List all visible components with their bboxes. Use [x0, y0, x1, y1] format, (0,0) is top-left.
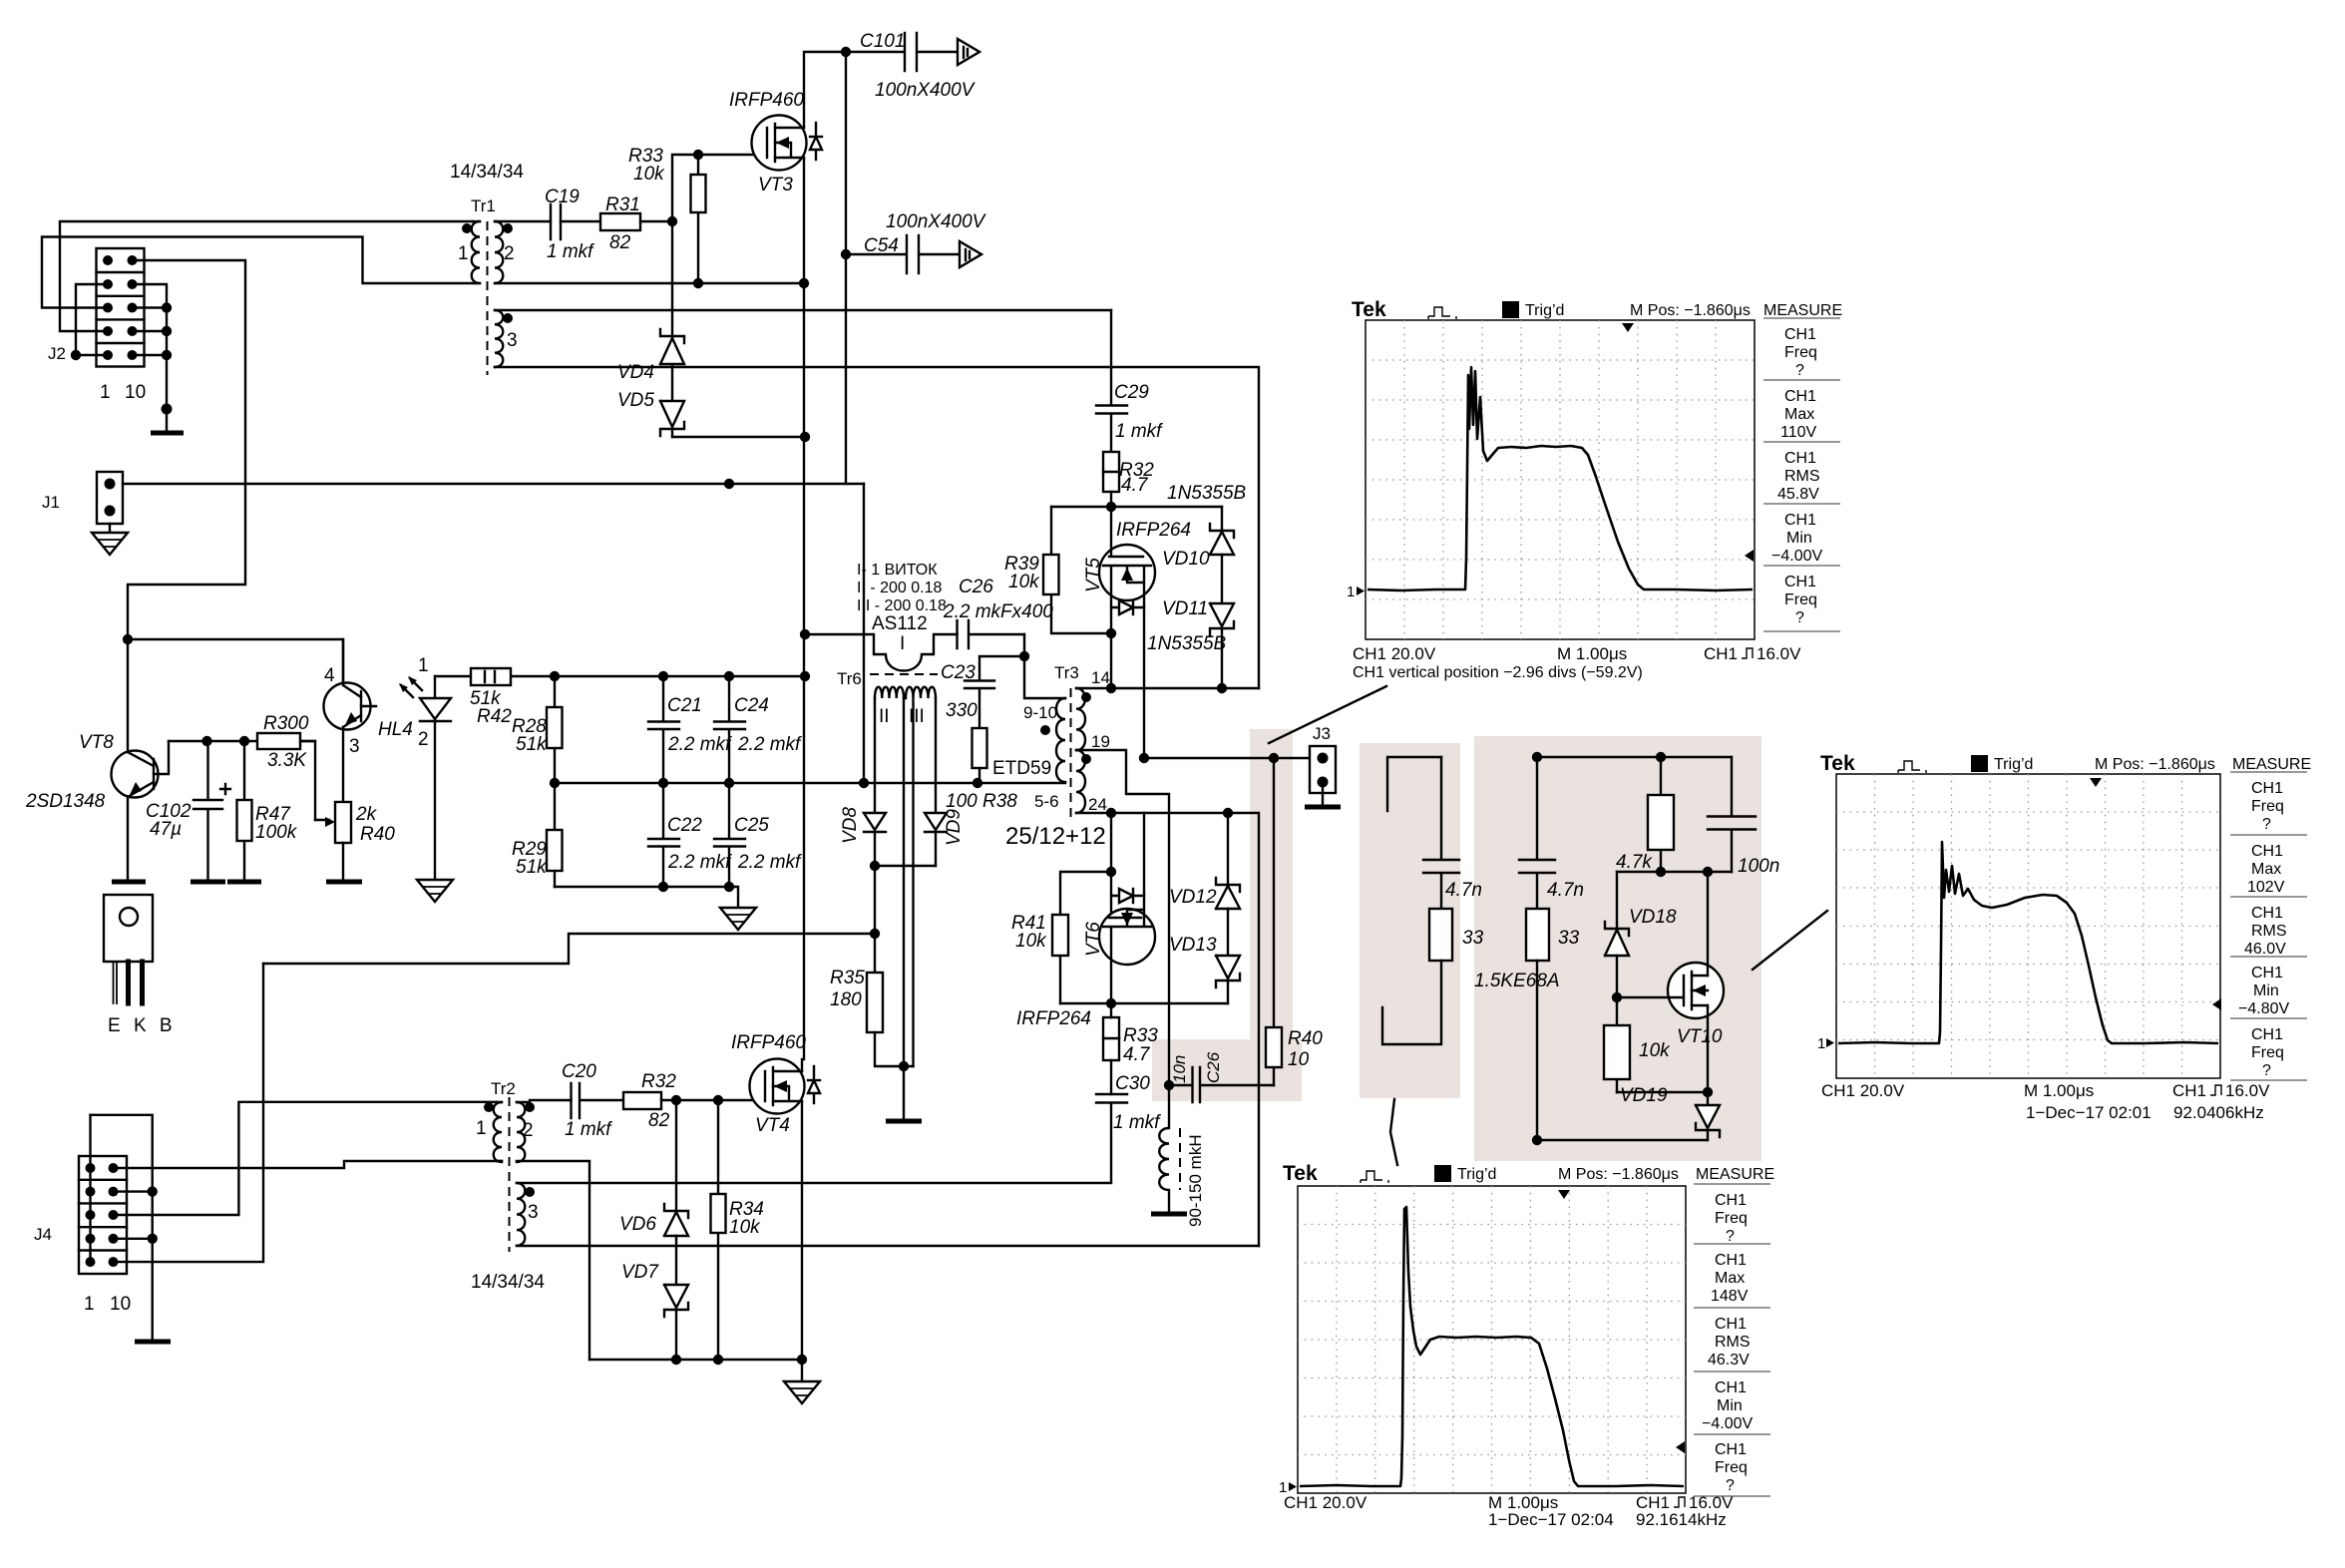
- svg-text:J1: J1: [42, 493, 60, 512]
- svg-text:I- 1 ВИТОК: I- 1 ВИТОК: [857, 562, 938, 579]
- svg-text:3: 3: [528, 1202, 539, 1223]
- wire: J4 row3 to Tr2 winding1 top: [114, 1102, 498, 1215]
- scope2 pulse icon: [1898, 761, 1926, 773]
- wire: J4 top loop to ground riser: [91, 1115, 153, 1340]
- svg-text:VD6: VD6: [619, 1214, 656, 1235]
- wire: HL4 anode rail to half-bridge node: [435, 675, 805, 677]
- scope1 menu separators: [1763, 318, 1840, 631]
- svg-text:I: I: [900, 633, 905, 654]
- junction at (128,641): [123, 634, 133, 644]
- svg-text:CH1: CH1: [2251, 905, 2283, 922]
- svg-text:VD11: VD11: [1162, 598, 1208, 619]
- svg-text:Freq: Freq: [2251, 798, 2284, 815]
- capacitor C30 1mkf: [1096, 1094, 1127, 1182]
- svg-text:CH1: CH1: [1784, 512, 1816, 529]
- junction at (1114,815): [1106, 808, 1116, 818]
- svg-text:Trig’d: Trig’d: [1525, 302, 1564, 319]
- svg-text:M Pos: −1.860μs: M Pos: −1.860μs: [1558, 1166, 1679, 1183]
- svg-text:4.7n: 4.7n: [1445, 880, 1482, 901]
- wire: VT4 drain to half-bridge node: [801, 1059, 803, 1071]
- svg-text:CH1: CH1: [1784, 326, 1816, 343]
- svg-text:19: 19: [1091, 732, 1110, 751]
- svg-text:VD13: VD13: [1169, 935, 1217, 956]
- svg-text:Freq: Freq: [1715, 1459, 1748, 1476]
- junction at (1027,658): [1019, 651, 1029, 661]
- svg-text:CH1: CH1: [1784, 450, 1816, 467]
- wire: J2 row2 left pin loop to row5 left pin: [76, 284, 108, 355]
- svg-text:C29: C29: [1114, 382, 1149, 403]
- svg-text:Tek: Tek: [1283, 1162, 1318, 1185]
- svg-text:CH1 20.0V: CH1 20.0V: [1353, 644, 1436, 663]
- svg-text:C26: C26: [1204, 1051, 1223, 1083]
- svg-text:16.0V: 16.0V: [2225, 1081, 2270, 1100]
- scope3 gridlines: [1298, 1186, 1686, 1493]
- ground bar (J4): [135, 1340, 171, 1345]
- svg-text:C25: C25: [734, 815, 769, 836]
- svg-text:CH1 20.0V: CH1 20.0V: [1821, 1081, 1905, 1100]
- VT6 body diode glyph: [1111, 889, 1144, 903]
- wire: Tr6 primary single turn: [805, 634, 958, 671]
- junction at (674,222): [667, 216, 677, 226]
- ground bar (R47): [227, 880, 261, 885]
- capacitor C26 2.2mkFx400: [958, 620, 1025, 648]
- svg-text:IRFP264: IRFP264: [1016, 1008, 1091, 1029]
- svg-text:100nX400V: 100nX400V: [875, 80, 977, 101]
- svg-text:92.0406kHz: 92.0406kHz: [2173, 1103, 2264, 1122]
- svg-text:C54: C54: [864, 235, 899, 256]
- svg-text:51k: 51k: [516, 734, 548, 755]
- scope1 gridlines: [1366, 320, 1755, 639]
- connector J1 pins: [105, 479, 116, 517]
- Tr6 winding II: [875, 687, 904, 698]
- junction at (1712,874): [1703, 867, 1713, 877]
- transistor VT8 2SD1348: [112, 639, 170, 882]
- shaded highlight region A2 (C26 10n patch): [1152, 1039, 1302, 1101]
- svg-text:82: 82: [648, 1110, 670, 1131]
- wire: Tr2 winding3 top line to C30: [517, 1182, 1111, 1184]
- svg-text:CH1: CH1: [1715, 1316, 1747, 1333]
- junction at (245,743): [239, 736, 249, 746]
- wire: J4 row1 to Tr2 winding1 bottom: [114, 1161, 498, 1168]
- svg-text:Freq: Freq: [1715, 1210, 1748, 1227]
- resistor R47: [243, 741, 245, 880]
- pointer line region B to scope3: [1390, 1099, 1397, 1165]
- resistor R34 10k: [717, 1100, 719, 1360]
- wire: anode node down to R35: [874, 866, 876, 973]
- resistor R40 10 (output damper): [1273, 758, 1275, 1085]
- wire: C26 to Tr3 primary top: [1024, 634, 1065, 698]
- wire: VD8/VD9 anodes join: [875, 865, 936, 867]
- junction at (152.7,1241.8): [148, 1234, 158, 1244]
- wire: J1 line drop to mid rail: [863, 484, 865, 783]
- svg-text:4.7k: 4.7k: [1616, 852, 1653, 873]
- wire: J4 left pins chain: [89, 1115, 91, 1262]
- svg-text:24: 24: [1088, 795, 1107, 814]
- svg-text:RMS: RMS: [1715, 1334, 1751, 1351]
- diode VD9: [925, 813, 947, 866]
- svg-text:16.0V: 16.0V: [1757, 644, 1801, 663]
- junction at (700,155): [693, 150, 703, 160]
- wire: region C top rail: [1537, 756, 1732, 758]
- svg-text:Tr2: Tr2: [491, 1079, 516, 1098]
- wire: Tr1 winding1 bottom return to J2 row3: [42, 237, 476, 308]
- wire: Tr2 winding2 top to C20: [517, 1100, 572, 1102]
- connector J2 pins: [103, 255, 138, 360]
- wire: region C bottom rail: [1537, 1139, 1708, 1141]
- svg-text:1: 1: [1347, 584, 1355, 600]
- junction at (207.5,743): [201, 736, 211, 746]
- zener VD5 (gate clamp down): [660, 401, 684, 437]
- Tr2 core: [509, 1097, 511, 1252]
- junction C54 node (848,255): [841, 249, 851, 259]
- scope1 grid frame: [1366, 320, 1755, 639]
- svg-text:5-6: 5-6: [1034, 792, 1059, 811]
- svg-text:1 mkf: 1 mkf: [1113, 1112, 1161, 1133]
- svg-text:CH1 vertical position −2.96 di: CH1 vertical position −2.96 divs (−59.2V…: [1353, 664, 1643, 681]
- svg-text:R35: R35: [830, 968, 865, 988]
- svg-text:R40: R40: [360, 824, 395, 845]
- svg-text:VT8: VT8: [79, 732, 114, 753]
- wire: Tr1 winding1 top to J2 row4: [60, 221, 473, 331]
- svg-text:1 mkf: 1 mkf: [565, 1119, 612, 1140]
- junction VT10 gate node (1621,1000): [1612, 992, 1622, 1002]
- Tr3 secondary winding 14-19: [1076, 688, 1085, 750]
- svg-text:MEASURE: MEASURE: [2232, 756, 2311, 773]
- connector J4 body: [79, 1156, 127, 1274]
- wire: divider mid rail to Tr3 primary: [555, 782, 1065, 784]
- svg-text:MEASURE: MEASURE: [1763, 302, 1842, 319]
- svg-text:IRFP460: IRFP460: [731, 1032, 806, 1053]
- wire: R35 bottom to ground node: [875, 1032, 914, 1066]
- svg-text:R40: R40: [1288, 1028, 1323, 1049]
- Tr3 secondary start dot (19): [1081, 754, 1091, 764]
- svg-text:?: ?: [1795, 362, 1804, 379]
- wire: VT3 drain up to C101 node: [804, 52, 846, 128]
- ground (hatched triangle) divider: [720, 908, 756, 930]
- svg-text:2.2 mkf: 2.2 mkf: [667, 734, 732, 755]
- svg-text:1: 1: [476, 1118, 487, 1139]
- svg-text:CH1 20.0V: CH1 20.0V: [1284, 1493, 1368, 1512]
- potentiometer R40 2k: [315, 802, 351, 880]
- svg-text:9-10: 9-10: [1023, 703, 1057, 722]
- svg-text:R300: R300: [263, 713, 309, 734]
- junction at (804,1363): [797, 1355, 807, 1365]
- ground bar (VT8 emitter): [112, 880, 146, 885]
- svg-text:47µ: 47µ: [150, 819, 182, 840]
- svg-text:?: ?: [1726, 1477, 1735, 1494]
- svg-text:1: 1: [100, 382, 111, 403]
- scope2 waveform: [1838, 842, 2218, 1043]
- svg-text:10n: 10n: [1170, 1055, 1189, 1083]
- svg-text:?: ?: [2262, 816, 2271, 833]
- VT3 gate bar: [766, 128, 768, 158]
- wire: R32 to VT5 gate node: [1110, 492, 1112, 507]
- Tr2 winding 2: [517, 1102, 525, 1162]
- Tr2 polarity dot winding1: [484, 1102, 494, 1112]
- svg-text:VT10: VT10: [1677, 1026, 1723, 1047]
- resistor R38 100: [973, 728, 987, 768]
- svg-text:R31: R31: [605, 195, 640, 215]
- scope1 pulse icon: [1428, 307, 1456, 319]
- svg-text:3: 3: [349, 736, 360, 757]
- svg-text:J2: J2: [48, 344, 66, 363]
- ground bar of J2 bus: [151, 431, 184, 436]
- Tr1 polarity dot winding2: [503, 223, 513, 233]
- svg-text:C22: C22: [667, 815, 702, 836]
- Tr2 polarity dot winding3: [525, 1187, 535, 1197]
- Tr2 polarity dot winding2: [525, 1102, 535, 1112]
- wire: VT10 source rail: [1617, 1091, 1708, 1093]
- junction at (152.7,1194.6): [148, 1186, 158, 1196]
- resistor R29 51k: [554, 783, 556, 887]
- svg-text:Tr1: Tr1: [471, 196, 496, 215]
- svg-text:2: 2: [418, 729, 429, 750]
- svg-text:C20: C20: [562, 1061, 596, 1082]
- zener VD6: [664, 1100, 688, 1285]
- svg-text:C26: C26: [959, 577, 993, 597]
- svg-text:1 mkf: 1 mkf: [1115, 421, 1163, 442]
- svg-text:Max: Max: [1715, 1270, 1745, 1287]
- wire: Tr1 winding3 bottom to VD10/14 rail: [495, 367, 1259, 688]
- VT3 channel bar: [774, 124, 776, 162]
- svg-text:C30: C30: [1115, 1073, 1150, 1094]
- svg-text:−4.00V: −4.00V: [1771, 548, 1822, 565]
- svg-text:10k: 10k: [1639, 1040, 1671, 1061]
- wire: Tr1 winding2 top to C19: [495, 220, 551, 222]
- svg-text:4.7: 4.7: [1121, 475, 1149, 496]
- svg-text:VD10: VD10: [1162, 549, 1210, 570]
- wire: winding II left to VD8: [874, 698, 876, 813]
- Tr2 winding 1: [494, 1102, 502, 1162]
- wire: J4 row5 to feedback riser x=264: [114, 964, 264, 1262]
- svg-text:1 mkf: 1 mkf: [547, 241, 594, 262]
- scope3 trigger level arrow: [1676, 1441, 1685, 1453]
- wire: VT8 base rail: [169, 740, 315, 742]
- wire: J2 row1 right pin to VT8 collector bus: [128, 260, 245, 639]
- scope3 waveform: [1300, 1207, 1684, 1486]
- connector J2 row dividers: [97, 272, 145, 343]
- wire: center-tap output to J3: [1144, 757, 1310, 759]
- wire: R300 to pot wiper: [300, 741, 315, 820]
- svg-text:90-150 mkH: 90-150 mkH: [1186, 1134, 1205, 1227]
- svg-text:2.2 mkFx400: 2.2 mkFx400: [943, 601, 1053, 622]
- wire: gate rail of VT10: [1617, 871, 1732, 873]
- junction at (1541,1143): [1532, 1135, 1542, 1145]
- svg-text:CH1: CH1: [2251, 1026, 2283, 1043]
- svg-text:10: 10: [1288, 1049, 1310, 1070]
- svg-text:2: 2: [523, 1120, 534, 1141]
- Tr6 winding III: [906, 687, 936, 698]
- svg-text:10: 10: [125, 382, 146, 403]
- MOSFET VT3 IRFP460: [752, 116, 807, 171]
- svg-text:10k: 10k: [1008, 572, 1040, 592]
- svg-text:HL4: HL4: [378, 719, 413, 740]
- scope2 menu separators: [2230, 772, 2307, 1080]
- svg-text:1N5355B: 1N5355B: [1167, 483, 1247, 504]
- capacitor C19: [551, 204, 561, 239]
- junction at (1712,1095): [1703, 1087, 1713, 1097]
- svg-text:1: 1: [1817, 1035, 1825, 1052]
- svg-text:MEASURE: MEASURE: [1696, 1166, 1774, 1183]
- svg-text:T: T: [1438, 1167, 1446, 1182]
- junction at (1231,815): [1223, 808, 1233, 818]
- junction at (806,284): [799, 278, 809, 288]
- junction VT5 gate node (1114,508): [1106, 502, 1116, 512]
- resistor R39 10k: [1051, 507, 1111, 633]
- svg-text:Freq: Freq: [2251, 1044, 2284, 1061]
- svg-text:102V: 102V: [2247, 879, 2285, 896]
- svg-text:−4.80V: −4.80V: [2238, 1000, 2289, 1017]
- junctions bottom rail: [658, 882, 734, 892]
- ground (hatched triangle) under J1: [92, 533, 128, 555]
- svg-text:110V: 110V: [1780, 424, 1817, 441]
- wire: VT6 source rail: [1060, 1002, 1228, 1004]
- zener VD10: [1210, 507, 1234, 603]
- svg-text:33: 33: [1462, 928, 1484, 949]
- svg-text:25/12+12: 25/12+12: [1005, 823, 1106, 850]
- connector J4 row dividers: [79, 1180, 127, 1251]
- junction at (731,485): [724, 479, 734, 489]
- svg-text:CH1: CH1: [1704, 644, 1738, 663]
- resistor R33 (gate-source VT3): [697, 155, 699, 283]
- svg-text:?: ?: [2262, 1062, 2271, 1079]
- junction at (700,284): [693, 278, 703, 288]
- wire: Tr3 pin24 rail: [1076, 813, 1259, 1246]
- VT3 arrow: [776, 137, 789, 149]
- wire: J4 row4 right stub: [114, 1238, 153, 1240]
- svg-text:Trig’d: Trig’d: [1457, 1166, 1496, 1183]
- svg-text:Min: Min: [1786, 530, 1812, 547]
- svg-text:148V: 148V: [1711, 1288, 1749, 1305]
- wire: Tr2 winding2 bottom return: [497, 1161, 589, 1360]
- junction C101 node (848,52): [841, 47, 851, 57]
- svg-text:Tek: Tek: [1820, 752, 1855, 775]
- wire: R32 to VT4 gate: [661, 1099, 765, 1101]
- svg-text:VD7: VD7: [621, 1262, 659, 1283]
- svg-text:2.2 mkf: 2.2 mkf: [737, 734, 802, 755]
- wire: winding III right to VD9: [935, 698, 937, 813]
- svg-text:1−Dec−17 02:01: 1−Dec−17 02:01: [2026, 1103, 2151, 1122]
- svg-text:II - 200 0.18: II - 200 0.18: [857, 580, 942, 596]
- svg-text:2SD1348: 2SD1348: [25, 791, 106, 812]
- scope2 gridlines: [1836, 774, 2220, 1078]
- VT4 body diode glyph: [808, 1066, 820, 1103]
- Tr2 winding 3: [517, 1183, 525, 1246]
- scope1 trigger level arrow: [1745, 550, 1754, 562]
- svg-text:C101: C101: [860, 31, 905, 52]
- svg-text:IRFP264: IRFP264: [1116, 520, 1191, 541]
- svg-text:2k: 2k: [355, 804, 378, 825]
- VT3 source stub + body tie: [775, 143, 804, 158]
- capacitor C26 10n: [1169, 1067, 1274, 1102]
- scope3 menu separators: [1694, 1184, 1770, 1496]
- wire: divider bottom rail: [555, 887, 738, 908]
- svg-text:330: 330: [946, 700, 977, 721]
- wire: ground stub below VT4 source: [801, 1360, 803, 1381]
- svg-text:100n: 100n: [1738, 856, 1779, 877]
- Tr2 winding 1 leads: [497, 1102, 502, 1161]
- ground bar (Tr6 center): [886, 1119, 922, 1124]
- svg-text:10k: 10k: [633, 164, 665, 185]
- svg-text:Trig’d: Trig’d: [1994, 756, 2033, 773]
- capacitor C20: [572, 1083, 624, 1118]
- svg-text:Freq: Freq: [1784, 591, 1817, 608]
- svg-text:CH1: CH1: [1784, 574, 1816, 590]
- svg-text:Min: Min: [2253, 982, 2279, 999]
- svg-text:2: 2: [504, 243, 515, 264]
- HL4 emission arrows: [399, 676, 422, 697]
- svg-text:14: 14: [1091, 668, 1110, 687]
- svg-text:J4: J4: [34, 1225, 52, 1244]
- junction at (1114,690): [1106, 683, 1116, 693]
- wire: snubber bus vertical x=848: [845, 52, 847, 484]
- svg-text:VT3: VT3: [758, 175, 793, 196]
- junction at (807,678): [800, 671, 810, 681]
- inductor core dashes: [1179, 1128, 1181, 1190]
- wire: J2 right pins bus to ground: [133, 284, 168, 432]
- junctions on J2 right bus: [162, 302, 173, 414]
- svg-text:1: 1: [418, 655, 429, 676]
- svg-text:45.8V: 45.8V: [1777, 486, 1819, 503]
- junction at (1225,690): [1217, 683, 1227, 693]
- LED HL4: [420, 676, 451, 880]
- svg-text:M 1.00μs: M 1.00μs: [1557, 644, 1627, 663]
- Tr3 core: [1070, 688, 1072, 818]
- svg-text:−4.00V: −4.00V: [1702, 1415, 1753, 1432]
- ground bar (C102): [191, 880, 225, 885]
- svg-text:92.1614kHz: 92.1614kHz: [1636, 1510, 1727, 1529]
- junction at (720,1363): [713, 1355, 723, 1365]
- zener VD7: [664, 1285, 688, 1360]
- svg-text:33: 33: [1558, 928, 1580, 949]
- wire: R31 to gate node of VT3: [640, 155, 768, 221]
- junction at (877,936): [870, 929, 880, 939]
- capacitor C102 47u polarized: [194, 741, 222, 880]
- junction at (731,678): [724, 671, 734, 681]
- svg-text:M Pos: −1.860μs: M Pos: −1.860μs: [1630, 302, 1751, 319]
- svg-text:100nX400V: 100nX400V: [886, 211, 987, 232]
- scope2 trig square: [1971, 755, 1988, 772]
- Tr1 winding 1: [472, 221, 480, 283]
- VT5 body diode glyph: [1111, 600, 1144, 614]
- wire: Tr3 pin19 center tap jog to C26 node: [1076, 750, 1169, 1085]
- resistor R32 4.7: [1103, 452, 1119, 492]
- resistor R33 4.7 (VT6 source): [1103, 1017, 1119, 1060]
- svg-text:RMS: RMS: [2251, 923, 2287, 940]
- svg-text:Max: Max: [2251, 861, 2281, 878]
- svg-text:VD12: VD12: [1169, 887, 1217, 908]
- svg-text:VD4: VD4: [617, 362, 654, 383]
- ground (hatched triangle) HL4: [417, 880, 453, 902]
- svg-text:?: ?: [1795, 609, 1804, 626]
- scope1 trig square: [1502, 301, 1519, 318]
- svg-text:82: 82: [609, 232, 631, 253]
- capacitor 4.7n (region B): [1423, 757, 1459, 909]
- svg-text:AS112: AS112: [872, 613, 928, 634]
- wire: VD5 bottom to VT3 source vertical: [672, 436, 805, 438]
- fusible resistor R42 51k: [471, 668, 511, 685]
- connector J1 body: [97, 472, 123, 524]
- junctions on mid rail: [550, 778, 982, 788]
- ground bar (pot R40): [326, 880, 362, 885]
- junction at (1665,759): [1656, 752, 1666, 762]
- shaded highlight region A (J3/R40 band): [1250, 729, 1293, 1092]
- capacitor C22: [648, 783, 679, 887]
- svg-text:4.7n: 4.7n: [1547, 880, 1584, 901]
- svg-text:C23: C23: [941, 662, 976, 683]
- svg-text:C19: C19: [545, 187, 580, 207]
- inductor 90-150 mkH: [1159, 1085, 1169, 1212]
